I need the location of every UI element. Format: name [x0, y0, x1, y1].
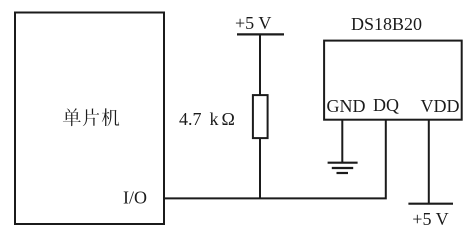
- glyph 单: [63, 108, 81, 126]
- svg-text:I/O: I/O: [123, 188, 147, 208]
- DS18B20 U2 box: [324, 41, 462, 120]
- ground symbol (3 bars): [328, 163, 358, 173]
- svg-text:DQ: DQ: [373, 95, 399, 115]
- wire: I/O pin to DQ pin bus: [164, 120, 386, 198]
- resistor R1 body (4.7 kΩ): [253, 95, 268, 138]
- svg-text:+5 V: +5 V: [235, 13, 271, 33]
- svg-text:k: k: [210, 109, 219, 129]
- wire: +5V bar to resistor top: [259, 34, 261, 96]
- microcontroller U1 box (单片机): [15, 13, 164, 225]
- svg-text:VDD: VDD: [421, 96, 460, 116]
- wire: resistor bottom to DQ bus: [259, 138, 261, 198]
- power +5V rail bar (bottom): [408, 203, 453, 205]
- power +5V rail bar (top): [237, 33, 284, 35]
- svg-text:+5 V: +5 V: [412, 209, 448, 229]
- svg-text:GND: GND: [327, 96, 366, 116]
- glyph 片: [83, 108, 99, 126]
- svg-text:DS18B20: DS18B20: [351, 14, 422, 34]
- label 单片机 (drawn glyph paths): [63, 108, 119, 126]
- wire: VDD pin down: [428, 120, 430, 204]
- glyph 机: [102, 108, 119, 126]
- svg-text:Ω: Ω: [222, 109, 235, 129]
- wire: GND pin down: [341, 120, 343, 163]
- svg-text:4.7: 4.7: [179, 109, 202, 129]
